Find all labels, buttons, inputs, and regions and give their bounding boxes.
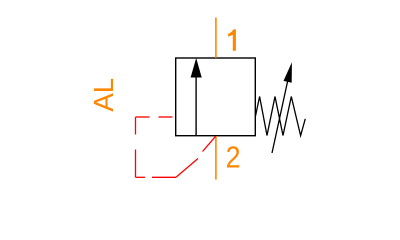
svg-text:AL: AL [88,78,119,112]
svg-text:2: 2 [226,141,241,175]
